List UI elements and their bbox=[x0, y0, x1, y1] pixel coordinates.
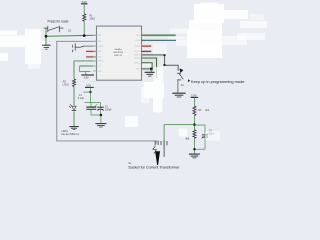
svg-text:GPIO12: GPIO12 bbox=[134, 55, 140, 57]
LED1 bbox=[69, 104, 76, 110]
resistor R1 bbox=[83, 14, 86, 21]
svg-text:Green (560nm): Green (560nm) bbox=[62, 132, 80, 136]
svg-text:RXD0: RXD0 bbox=[135, 40, 140, 42]
jack S1 (CT socket) bbox=[155, 140, 167, 157]
svg-text:GPIO5: GPIO5 bbox=[135, 51, 140, 53]
wire: main reset net horizontal bbox=[46, 35, 97, 36]
junction square dot bbox=[150, 68, 153, 71]
svg-text:1.5kΩ: 1.5kΩ bbox=[62, 84, 69, 87]
svg-text:0.1µF: 0.1µF bbox=[78, 97, 85, 100]
svg-text:RST: RST bbox=[98, 35, 101, 37]
wire: L3 to ground bbox=[142, 68, 153, 70]
watermark blobs middle bbox=[125, 44, 220, 142]
jack switch lightning bbox=[153, 146, 157, 153]
ground G3 (LED) bbox=[69, 127, 78, 130]
junction dot bbox=[45, 35, 48, 38]
wire: L1 bbox=[142, 58, 157, 78]
wire R4 to ground bbox=[193, 138, 195, 153]
svg-text:ESP-12: ESP-12 bbox=[115, 55, 123, 57]
watermark blobs top right cluster bbox=[168, 3, 267, 59]
ground G6 (right column) bbox=[189, 154, 200, 158]
wire: button down to net and ground bbox=[45, 28, 47, 45]
wire: to programming switch bbox=[142, 55, 179, 71]
IC left pin stubs bbox=[93, 35, 97, 71]
cap top rail bbox=[85, 102, 101, 104]
IC right pin labels bbox=[134, 35, 141, 71]
junction dot bbox=[83, 34, 86, 37]
junction dot bbox=[89, 91, 91, 93]
wire LED to ground bbox=[73, 111, 75, 126]
IC left pin labels bbox=[98, 35, 103, 73]
power flag 3.3V (flag1) bbox=[81, 74, 94, 76]
wire B: 3.3V branch from IC bbox=[80, 65, 97, 67]
ground G2 (below IC right) bbox=[150, 69, 152, 72]
cap bottom rail bbox=[91, 114, 101, 116]
resistor R2 bbox=[73, 79, 76, 87]
wire: red left 1 bbox=[86, 50, 96, 52]
ground G5 (switch) bbox=[172, 93, 185, 97]
wire: big gray loop IC row3 to jack bbox=[57, 41, 157, 143]
svg-text:GPIO13: GPIO13 bbox=[134, 58, 140, 60]
text: Keep up in programming mode bbox=[188, 79, 190, 82]
wire: switch to ground bbox=[177, 80, 179, 93]
junction dot bbox=[193, 123, 196, 126]
wire: right red 2 bbox=[142, 50, 152, 52]
wire: right red 1 bbox=[142, 45, 152, 47]
svg-text:10kΩ: 10kΩ bbox=[89, 18, 95, 21]
svg-text:GPIO0: GPIO0 bbox=[98, 46, 103, 48]
svg-text:4k8: 4k8 bbox=[185, 138, 190, 141]
pale halo for wires bbox=[142, 34, 176, 57]
svg-text:GPIO4: GPIO4 bbox=[135, 46, 140, 48]
switch S4 (programming) bbox=[177, 73, 183, 80]
svg-text:3.3V: 3.3V bbox=[84, 76, 89, 79]
wire R2 to LED bbox=[73, 87, 75, 106]
svg-text:GPIO2: GPIO2 bbox=[98, 61, 103, 63]
wire: junction to jack bbox=[164, 125, 194, 146]
capacitor C5 branch bbox=[194, 125, 205, 134]
pale halo left reds bbox=[86, 50, 96, 53]
wire to cap rail bbox=[83, 91, 90, 93]
svg-text:GPIO14: GPIO14 bbox=[134, 63, 140, 65]
wire R3 down bbox=[193, 116, 195, 130]
switch S3 (flash) bbox=[73, 43, 84, 52]
svg-text:TXD0: TXD0 bbox=[136, 35, 140, 37]
svg-text:2k2: 2k2 bbox=[205, 109, 210, 112]
pushbutton S2 bbox=[44, 26, 64, 32]
svg-text:Keep up in programming mode: Keep up in programming mode bbox=[191, 79, 245, 84]
wire R1 down to net bbox=[83, 21, 85, 35]
wire A: LED branch from IC bbox=[74, 61, 97, 79]
IC right pin stubs bbox=[142, 35, 146, 69]
wire: right long 1 bbox=[142, 34, 176, 36]
svg-text:Socket for Current Transformer: Socket for Current Transformer bbox=[128, 165, 180, 169]
ground G1 (button) bbox=[42, 45, 51, 49]
resistor R3 bbox=[193, 106, 196, 116]
pale green net region right of IC bbox=[142, 57, 159, 70]
arrowhead bbox=[180, 68, 184, 73]
wire switch S3 to IC bbox=[84, 45, 97, 47]
resistor R4 bbox=[193, 130, 196, 139]
ground G4 (caps) bbox=[100, 115, 102, 123]
IC U1 body bbox=[97, 26, 142, 80]
jack plug wedge bbox=[155, 151, 160, 165]
wire: red left 2 bbox=[86, 56, 96, 58]
svg-text:Press for reset: Press for reset bbox=[48, 19, 69, 23]
wire: right long 2 (teal) bbox=[142, 39, 177, 41]
wire: L2 bbox=[142, 63, 153, 69]
capacitor C1 bbox=[90, 103, 92, 107]
svg-text:WeMos: WeMos bbox=[115, 49, 123, 51]
svg-text:ESP8266: ESP8266 bbox=[114, 52, 124, 54]
watermark blobs left cluster bbox=[0, 29, 45, 69]
capacitor C2 (electrolytic) bbox=[100, 103, 102, 107]
svg-text:100µF: 100µF bbox=[105, 108, 112, 111]
